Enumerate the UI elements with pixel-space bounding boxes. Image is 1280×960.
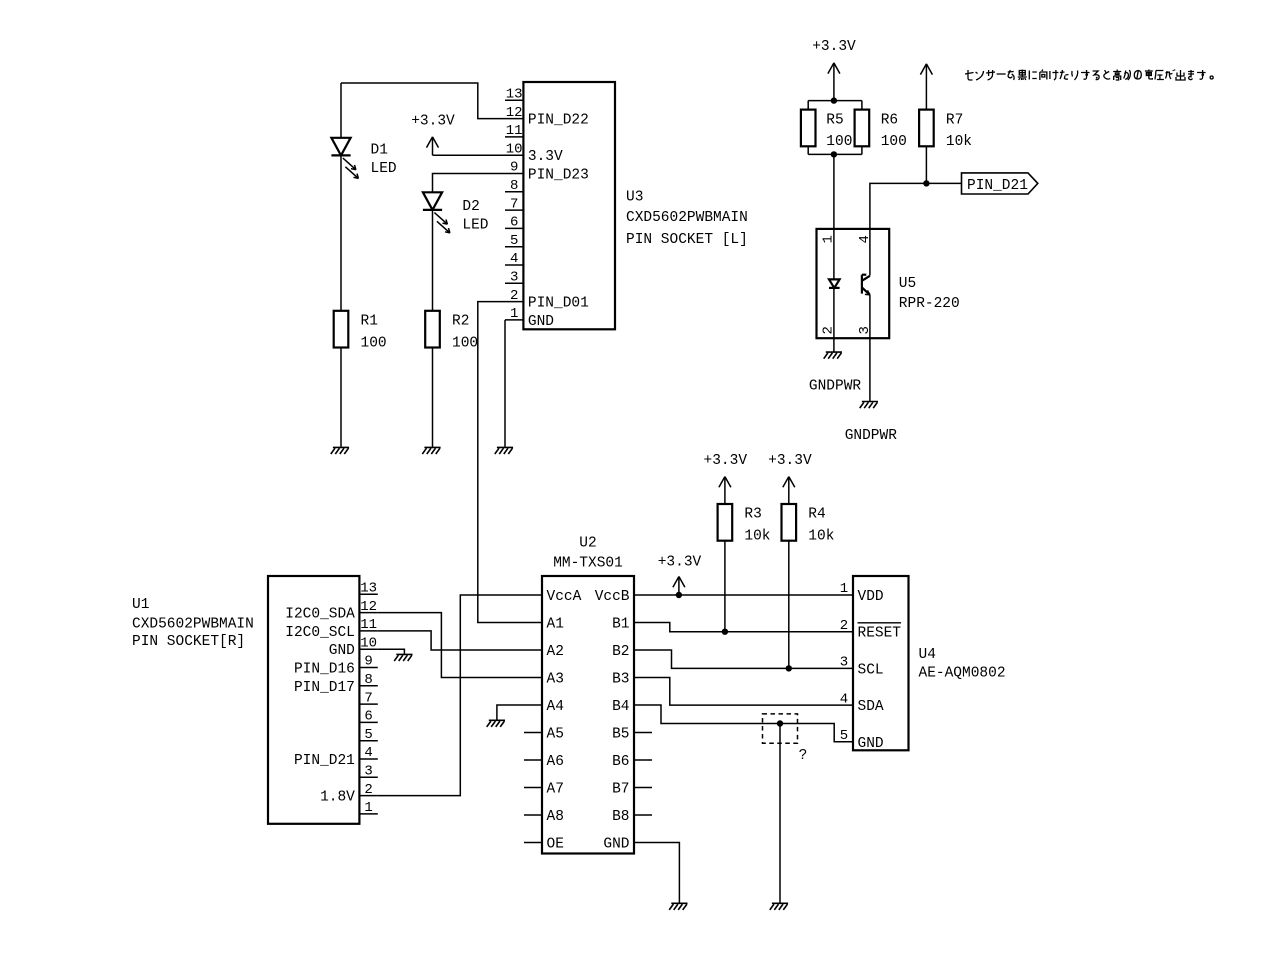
svg-text:1: 1 xyxy=(840,581,848,597)
svg-text:I2C0_SDA: I2C0_SDA xyxy=(285,607,355,623)
svg-text:8: 8 xyxy=(364,672,372,688)
svg-text:10k: 10k xyxy=(808,529,834,545)
pin 5 GND of U4 xyxy=(835,741,853,743)
pin 3 of U1 xyxy=(359,776,377,778)
pin 13 of U1 xyxy=(359,593,377,595)
pin 1 VDD of U4 xyxy=(835,594,853,596)
svg-text:PIN_D22: PIN_D22 xyxy=(528,113,589,129)
svg-text:+3.3V: +3.3V xyxy=(812,39,856,55)
svg-text:B4: B4 xyxy=(612,699,629,715)
pin None VccA VccA of U2 xyxy=(524,594,542,596)
pin 4 of U3 xyxy=(505,264,523,266)
pin None A4 A4 of U2 xyxy=(524,704,542,706)
ground (U2 GND) xyxy=(669,903,687,910)
junction SCL/R4 xyxy=(786,665,792,671)
svg-text:A5: A5 xyxy=(547,727,564,743)
wire D2 cathode to R2 xyxy=(432,210,434,311)
U5 internal LED xyxy=(829,279,840,288)
pin None B5 B5 of U2 xyxy=(634,732,652,734)
junction RESET/R3 xyxy=(722,629,728,635)
photoreflector U5 body xyxy=(817,229,890,338)
svg-text:11: 11 xyxy=(506,123,523,139)
svg-text:+3.3V: +3.3V xyxy=(768,453,812,469)
svg-text:U4: U4 xyxy=(919,647,936,663)
svg-text:VccB: VccB xyxy=(595,589,630,605)
U4 RESET overline xyxy=(858,622,902,624)
svg-text:1: 1 xyxy=(510,306,518,322)
svg-text:A6: A6 xyxy=(547,754,564,770)
ground (B4 net) xyxy=(770,903,788,910)
svg-text:PIN_D16: PIN_D16 xyxy=(294,662,355,678)
pin 10 3.3V of U3 xyxy=(505,154,523,156)
svg-text:D1: D1 xyxy=(371,143,388,159)
svg-text:U2: U2 xyxy=(579,536,596,552)
svg-text:GND: GND xyxy=(603,837,629,853)
svg-text:5: 5 xyxy=(840,728,848,744)
wire U2 B4 to U4 GND xyxy=(652,705,835,742)
svg-text:SCL: SCL xyxy=(858,662,884,678)
wire U1 pin 12 I2C0_SDA to U2 A3 xyxy=(378,613,524,678)
resistor R6 100 xyxy=(855,110,870,147)
svg-text:GNDPWR: GNDPWR xyxy=(845,428,898,444)
pin 5 of U1 xyxy=(359,740,377,742)
wire U1 pin 10 GND to ground xyxy=(378,649,405,654)
svg-text:R3: R3 xyxy=(744,507,761,523)
junction R5/R6 bottom xyxy=(831,151,837,157)
wire D1 top to U3 pin 12 xyxy=(341,83,505,119)
svg-text:9: 9 xyxy=(510,160,518,176)
pin None A7 A7 of U2 xyxy=(524,787,542,789)
svg-text:4: 4 xyxy=(364,745,372,761)
wire D1 anode xyxy=(340,83,342,138)
pin None A1 A1 of U2 xyxy=(524,622,542,624)
svg-text:PIN_D21: PIN_D21 xyxy=(967,178,1028,194)
svg-text:5: 5 xyxy=(364,727,372,743)
wire U3 pin 1 GND to ground xyxy=(504,320,506,447)
svg-text:5: 5 xyxy=(510,233,518,249)
svg-text:+3.3V: +3.3V xyxy=(411,114,455,130)
IC U4 AE-AQM0802 body xyxy=(853,576,909,750)
pin 11 I2C0_SCL of U1 xyxy=(359,630,377,632)
pin 8 of U3 xyxy=(505,191,523,193)
svg-text:CXD5602PWBMAIN: CXD5602PWBMAIN xyxy=(626,210,748,226)
svg-text:12: 12 xyxy=(506,105,523,121)
pin None B6 B6 of U2 xyxy=(634,759,652,761)
svg-text:GNDPWR: GNDPWR xyxy=(809,379,862,395)
IC U2 level shifter body xyxy=(542,576,634,854)
svg-text:100: 100 xyxy=(361,335,387,351)
svg-text:8: 8 xyxy=(510,178,518,194)
pin None A6 A6 of U2 xyxy=(524,759,542,761)
pin None B3 B3 of U2 xyxy=(634,677,652,679)
IC U3 pin socket body xyxy=(523,82,615,329)
wire U2 B1 to U4 RESET xyxy=(652,623,835,632)
pin 1 of U1 xyxy=(359,813,377,815)
ground (U2 A4) xyxy=(487,720,505,727)
U5 internal phototransistor xyxy=(862,275,870,295)
IC U1 pin socket body xyxy=(268,576,359,824)
svg-text:10: 10 xyxy=(506,141,523,157)
svg-text:B8: B8 xyxy=(612,809,629,825)
pin None VccB VccB of U2 xyxy=(634,594,652,596)
pin 2 RESET of U4 xyxy=(835,631,853,633)
wire U5 pin 3 to GNDPWR xyxy=(869,295,871,401)
svg-text:A3: A3 xyxy=(547,672,564,688)
svg-text:2: 2 xyxy=(364,782,372,798)
svg-text:MM-TXS01: MM-TXS01 xyxy=(553,556,623,572)
svg-text:3: 3 xyxy=(364,764,372,780)
pin 13 of U3 xyxy=(505,99,523,101)
pin 11 of U3 xyxy=(505,136,523,138)
+3.3V power (VccB) xyxy=(673,577,685,596)
pin 7 of U3 xyxy=(505,209,523,211)
svg-text:PIN SOCKET [L]: PIN SOCKET [L] xyxy=(626,232,748,248)
pin 2 1.8V of U1 xyxy=(359,795,377,797)
svg-text:RESET: RESET xyxy=(858,626,902,642)
svg-text:B7: B7 xyxy=(612,782,629,798)
svg-text:100: 100 xyxy=(452,335,478,351)
svg-text:7: 7 xyxy=(364,690,372,706)
svg-text:SDA: SDA xyxy=(858,699,884,715)
pin None A3 A3 of U2 xyxy=(524,677,542,679)
svg-text:1: 1 xyxy=(821,235,837,243)
svg-text:R4: R4 xyxy=(808,507,825,523)
svg-text:13: 13 xyxy=(360,581,377,597)
pin 12 I2C0_SDA of U1 xyxy=(359,612,377,614)
svg-text:OE: OE xyxy=(547,837,564,853)
pin None B4 B4 of U2 xyxy=(634,704,652,706)
svg-text:PIN_D01: PIN_D01 xyxy=(528,296,589,312)
svg-text:4: 4 xyxy=(840,691,848,707)
pin 4 SDA of U4 xyxy=(835,704,853,706)
svg-text:R5: R5 xyxy=(826,112,843,128)
svg-text:2: 2 xyxy=(840,618,848,634)
svg-text:U3: U3 xyxy=(626,190,643,206)
svg-text:9: 9 xyxy=(364,654,372,670)
svg-text:PIN SOCKET[R]: PIN SOCKET[R] xyxy=(132,634,245,650)
wire R2 to ground xyxy=(432,348,434,447)
ground (U3 GND) xyxy=(495,447,513,454)
pin 2 PIN_D01 of U3 xyxy=(505,301,523,303)
wire R1 to ground xyxy=(340,348,342,447)
LED D1 xyxy=(331,138,358,179)
svg-text:A1: A1 xyxy=(547,617,564,633)
svg-text:3: 3 xyxy=(840,655,848,671)
junction VccB rail xyxy=(676,592,682,598)
wire R3 to RESET net xyxy=(724,541,726,632)
svg-text:R6: R6 xyxy=(881,112,898,128)
pin 7 of U1 xyxy=(359,703,377,705)
+3.3V power (R4) xyxy=(783,477,795,504)
resistor R4 10k xyxy=(782,504,797,541)
pin 6 of U1 xyxy=(359,721,377,723)
svg-text:GND: GND xyxy=(329,643,355,659)
svg-text:+3.3V: +3.3V xyxy=(704,453,748,469)
svg-text:11: 11 xyxy=(360,617,377,633)
svg-text:LED: LED xyxy=(462,218,488,234)
svg-text:+3.3V: +3.3V xyxy=(658,555,702,571)
resistor R3 10k xyxy=(718,504,733,541)
svg-text:?: ? xyxy=(799,748,808,764)
svg-text:100: 100 xyxy=(881,134,907,150)
pin 4 PIN_D21 of U1 xyxy=(359,758,377,760)
svg-text:PIN_D17: PIN_D17 xyxy=(294,680,355,696)
svg-text:A4: A4 xyxy=(547,699,564,715)
dashed highlight box xyxy=(763,714,798,743)
svg-text:D2: D2 xyxy=(462,199,479,215)
svg-text:4: 4 xyxy=(857,235,873,243)
svg-text:B3: B3 xyxy=(612,672,629,688)
net flag PIN_D21 xyxy=(962,173,1038,194)
svg-text:PIN_D23: PIN_D23 xyxy=(528,168,589,184)
wire U2 B3 to U4 SDA xyxy=(652,678,835,706)
pin None GND GND of U2 xyxy=(634,842,652,844)
ground GNDPWR (U5 pin 2) xyxy=(824,352,842,359)
pin 9 PIN_D23 of U3 xyxy=(505,173,523,175)
svg-text:A7: A7 xyxy=(547,782,564,798)
pin 1 GND of U3 xyxy=(505,319,523,321)
svg-text:3.3V: 3.3V xyxy=(528,149,563,165)
svg-text:1.8V: 1.8V xyxy=(320,790,355,806)
wire to U5 pin 1 xyxy=(833,154,835,279)
pin None A2 A2 of U2 xyxy=(524,649,542,651)
svg-text:LED: LED xyxy=(371,161,397,177)
wire D1 cathode to R1 xyxy=(340,155,342,310)
svg-text:VDD: VDD xyxy=(858,589,884,605)
wire R4 to SCL net xyxy=(788,541,790,669)
svg-text:PIN_D21: PIN_D21 xyxy=(294,753,355,769)
pin None B1 B1 of U2 xyxy=(634,622,652,624)
svg-text:2: 2 xyxy=(510,288,518,304)
ground (U1 GND) xyxy=(394,654,412,661)
pin None A8 A8 of U2 xyxy=(524,814,542,816)
pin None OE OE of U2 xyxy=(524,842,542,844)
ground (R1) xyxy=(331,447,349,454)
pin 3 of U3 xyxy=(505,282,523,284)
svg-text:R1: R1 xyxy=(361,314,378,330)
pin 6 of U3 xyxy=(505,227,523,229)
wire U2 B2 to U4 SCL xyxy=(652,650,835,668)
note: sensor voltage comment (Japanese, drawn) xyxy=(965,70,1213,81)
LED D2 xyxy=(423,192,450,233)
pin None B7 B7 of U2 xyxy=(634,787,652,789)
svg-text:7: 7 xyxy=(510,196,518,212)
svg-text:VccA: VccA xyxy=(547,589,582,605)
pin None B2 B2 of U2 xyxy=(634,649,652,651)
+3.3V power (U3 3.3V pin) xyxy=(427,137,439,155)
wire +3.3V to U3 pin 10 xyxy=(433,154,506,156)
svg-text:I2C0_SCL: I2C0_SCL xyxy=(285,625,355,641)
pin 3 SCL of U4 xyxy=(835,667,853,669)
junction B4/ground tap xyxy=(777,720,783,726)
ground GNDPWR (U5 pin 3) xyxy=(860,402,878,409)
svg-text:B6: B6 xyxy=(612,754,629,770)
svg-text:B5: B5 xyxy=(612,727,629,743)
resistor R2 100 xyxy=(425,311,440,348)
svg-text:U5: U5 xyxy=(899,276,916,292)
svg-text:10: 10 xyxy=(360,635,377,651)
svg-text:U1: U1 xyxy=(132,597,149,613)
ground (R2) xyxy=(422,447,440,454)
wire node to U5 pin 4 xyxy=(870,183,962,275)
wire U2 A4 to ground xyxy=(497,705,524,720)
svg-text:10k: 10k xyxy=(946,134,972,150)
wire tap to ground xyxy=(779,724,781,903)
svg-text:A2: A2 xyxy=(547,644,564,660)
svg-text:B2: B2 xyxy=(612,644,629,660)
resistor R1 100 xyxy=(334,311,349,348)
resistor R5 100 xyxy=(801,110,816,147)
wire U3 pin 2 PIN_D01 to U2 A1 xyxy=(478,302,524,623)
wire R5/R6 bottom rail xyxy=(807,146,809,154)
pin 8 PIN_D17 of U1 xyxy=(359,685,377,687)
wire U1 pin 11 I2C0_SCL to U2 A2 xyxy=(378,631,524,650)
wire U3 pin 9 to D2 xyxy=(433,174,506,193)
wire U2 VccB to U4 VDD xyxy=(652,594,835,596)
svg-text:CXD5602PWBMAIN: CXD5602PWBMAIN xyxy=(132,617,254,633)
svg-text:12: 12 xyxy=(360,599,377,615)
svg-text:B1: B1 xyxy=(612,617,629,633)
svg-text:RPR-220: RPR-220 xyxy=(899,296,960,312)
+3.3V power (R3) xyxy=(719,477,731,504)
svg-text:6: 6 xyxy=(364,709,372,725)
wire U2 GND to ground xyxy=(652,843,679,903)
svg-text:R2: R2 xyxy=(452,314,469,330)
+3.3V power (R7) xyxy=(920,64,932,110)
pin 5 of U3 xyxy=(505,246,523,248)
wire R5/R6 top rail xyxy=(808,100,862,102)
junction R5/R6 top xyxy=(831,97,837,103)
svg-text:1: 1 xyxy=(364,800,372,816)
pin 10 GND of U1 xyxy=(359,648,377,650)
pin 12 PIN_D22 of U3 xyxy=(505,118,523,120)
svg-text:4: 4 xyxy=(510,251,518,267)
wire R7 to PIN_D21 node xyxy=(925,146,927,183)
pin None B8 B8 of U2 xyxy=(634,814,652,816)
svg-text:GND: GND xyxy=(528,314,554,330)
svg-text:3: 3 xyxy=(510,270,518,286)
svg-text:GND: GND xyxy=(858,736,884,752)
pin 9 PIN_D16 of U1 xyxy=(359,667,377,669)
junction PIN_D21 node xyxy=(923,180,929,186)
+3.3V power (sensor) xyxy=(828,63,840,101)
svg-text:10k: 10k xyxy=(744,529,770,545)
svg-text:A8: A8 xyxy=(547,809,564,825)
svg-text:100: 100 xyxy=(826,134,852,150)
pin None A5 A5 of U2 xyxy=(524,732,542,734)
svg-text:13: 13 xyxy=(506,87,523,103)
svg-text:R7: R7 xyxy=(946,112,963,128)
svg-text:6: 6 xyxy=(510,215,518,231)
resistor R7 10k xyxy=(919,110,934,147)
svg-text:AE-AQM0802: AE-AQM0802 xyxy=(919,666,1006,682)
wire U5 pin 2 to GNDPWR xyxy=(833,288,835,352)
wire U1 pin 2 1.8V to U2 VccA xyxy=(378,595,524,796)
